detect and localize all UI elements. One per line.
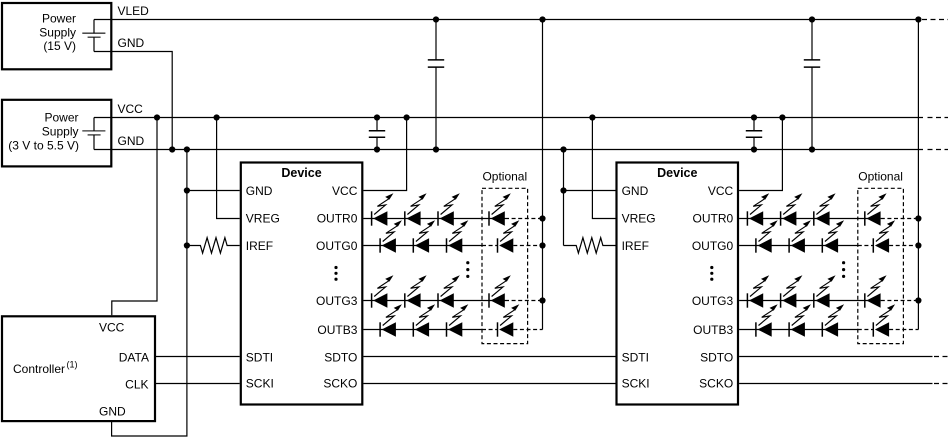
capacitor C2 (VLED bypass, device U1) (435, 20, 437, 150)
svg-text:GND: GND (246, 184, 273, 198)
svg-text:Power: Power (44, 111, 78, 125)
optional LED OUTR0 (489, 193, 511, 225)
device U2 box (617, 163, 739, 405)
LED string U2 OUTG3 (747, 275, 769, 307)
wire U2 OUTB3 string (739, 329, 858, 331)
junction VCC rail / U2 VREG feed (589, 114, 595, 120)
junction U2 OUTG3 / VLED drop (915, 297, 921, 303)
svg-text:VCC: VCC (332, 184, 358, 198)
wire U2 GND pin (564, 190, 616, 192)
svg-text:Optional: Optional (858, 170, 903, 184)
power supply PS1 (15 V) box (2, 3, 111, 69)
junction C1 / GND rail (374, 146, 380, 152)
junction C3 / VCC rail (751, 114, 757, 120)
LED area ellipsis (U1) (466, 261, 469, 264)
wire VCC dashed continuation (928, 117, 949, 119)
optional LED U2 OUTR0 (865, 193, 887, 225)
wire U1 OUTG0 string (363, 245, 482, 247)
svg-text:IREF: IREF (622, 239, 649, 253)
wire controller VCC feed (112, 118, 157, 316)
junction GND rail / U1 ground drop (184, 146, 190, 152)
power supply PS2 (3 V to 5.5 V) box (2, 100, 111, 167)
svg-text:DATA: DATA (119, 350, 149, 364)
svg-text:Power: Power (42, 12, 76, 26)
svg-text:SCKI: SCKI (246, 377, 274, 391)
junction PS1 GND / GND rail (169, 146, 175, 152)
LED string U2 OUTR0 (747, 193, 769, 225)
capacitor C4 (VLED bypass, device U2) (811, 20, 813, 150)
svg-text:(15 V): (15 V) (43, 39, 76, 53)
junction OUTG0 / VLED drop (539, 242, 545, 248)
svg-text:SDTO: SDTO (324, 350, 357, 364)
battery symbol inside PS2 (82, 130, 105, 132)
wire CLK to U1 SCKI (156, 383, 240, 385)
wire U2 VREG feed (592, 118, 615, 219)
wire U2 ground drop (563, 150, 565, 246)
optional LED OUTB3 (498, 304, 520, 336)
svg-text:SCKI: SCKI (622, 377, 650, 391)
junction VLED rail / U2 drop (915, 16, 921, 22)
svg-text:VCC: VCC (708, 184, 734, 198)
svg-text:Supply: Supply (42, 125, 79, 139)
svg-text:OUTR0: OUTR0 (693, 212, 734, 226)
wire U1 OUTB3 string (363, 329, 482, 331)
capacitor C3 (VCC bypass, device U2) (753, 118, 755, 150)
wire U1 OUTR0 string (363, 218, 505, 220)
junction U1 GND pin / ground drop (184, 187, 190, 193)
junction U2 OUTG0 / VLED drop (915, 242, 921, 248)
wire U1 ground drop (GND rail to controller GND) (112, 150, 187, 437)
wire U1 GND pin (187, 190, 240, 192)
svg-text:Device: Device (281, 166, 321, 180)
LED string OUTG3 (372, 275, 394, 307)
junction GND rail / U2 ground drop (560, 146, 566, 152)
optional LED OUTG0 (498, 220, 520, 252)
svg-text:GND: GND (622, 184, 649, 198)
wire U2 OUTR0 string (739, 218, 881, 220)
optional LED U2 OUTG3 (865, 275, 887, 307)
optional LED OUTG3 (489, 275, 511, 307)
svg-text:VCC: VCC (99, 321, 125, 335)
wire GND dashed continuation (928, 149, 949, 151)
wire VLED drop for U1 LED strings (542, 20, 544, 330)
controller box (2, 316, 155, 421)
svg-text:GND: GND (99, 405, 126, 419)
device U1 box (241, 163, 362, 405)
svg-text:(3 V to 5.5 V): (3 V to 5.5 V) (8, 138, 79, 152)
wire U2 SCKO output (739, 383, 932, 385)
LED string U2 OUTG0 (756, 220, 778, 252)
junction C4 / GND rail (809, 146, 815, 152)
optional dashed box (U1) (482, 188, 528, 343)
svg-text:OUTB3: OUTB3 (693, 323, 733, 337)
LED string OUTR0 (372, 193, 394, 225)
svg-text:VCC: VCC (118, 102, 144, 116)
junction VCC rail / controller feed (154, 114, 160, 120)
junction U1 IREF / ground drop (184, 242, 190, 248)
optional LED U2 OUTB3 (873, 304, 895, 336)
resistor R1 (U1 IREF) (187, 238, 240, 253)
junction VCC rail / U1 VREG feed (214, 114, 220, 120)
junction VCC rail / U1 VCC feed (404, 114, 410, 120)
wire U2 OUTG3 string (739, 300, 881, 302)
junction C3 / GND rail (751, 146, 757, 152)
wire device U1 VREG feed (217, 118, 240, 219)
svg-text:Supply: Supply (39, 26, 76, 40)
junction OUTG3 / VLED drop (539, 297, 545, 303)
LED string OUTB3 (380, 304, 402, 336)
wire VLED dashed continuation (922, 19, 948, 21)
svg-text:VREG: VREG (246, 212, 280, 226)
junction C2 / VLED rail (433, 16, 439, 22)
wire VCC rail (94, 117, 923, 119)
svg-text:OUTR0: OUTR0 (317, 212, 358, 226)
junction C2 / GND rail (433, 146, 439, 152)
wire U1 SCKO to U2 SCKI (363, 383, 615, 385)
wire U1 VCC feed (363, 118, 406, 191)
svg-text:Optional: Optional (482, 170, 527, 184)
svg-text:(1): (1) (67, 360, 78, 370)
svg-text:CLK: CLK (125, 377, 148, 391)
svg-text:OUTG3: OUTG3 (692, 294, 734, 308)
svg-text:SDTI: SDTI (622, 350, 649, 364)
optional LED U2 OUTG0 (873, 220, 895, 252)
junction U2 OUTR0 / VLED drop (915, 215, 921, 221)
svg-text:VLED: VLED (118, 4, 150, 18)
junction C4 / VLED rail (809, 16, 815, 22)
svg-text:OUTB3: OUTB3 (317, 323, 357, 337)
wire GND rail (94, 149, 923, 151)
resistor R2 (U2 IREF) (564, 238, 616, 253)
battery symbol inside PS1 (82, 32, 105, 34)
LED string U2 OUTB3 (756, 304, 778, 336)
junction VLED rail / U1 drop (539, 16, 545, 22)
wire VLED rail (94, 19, 918, 21)
wire U2 VCC feed (739, 118, 782, 191)
svg-text:VREG: VREG (622, 212, 656, 226)
wire U2 SDTO output (739, 356, 932, 358)
junction U2 GND pin / ground drop (560, 187, 566, 193)
svg-text:GND: GND (118, 134, 145, 148)
LED area ellipsis (U2) (842, 261, 845, 264)
wire DATA to U1 SDTI (156, 356, 240, 358)
svg-text:IREF: IREF (246, 239, 273, 253)
junction VCC rail / U2 VCC feed (779, 114, 785, 120)
svg-text:OUTG0: OUTG0 (692, 239, 734, 253)
svg-text:SCKO: SCKO (699, 377, 733, 391)
wire PS1 GND to ground rail (94, 52, 172, 150)
svg-text:OUTG3: OUTG3 (316, 294, 358, 308)
wire U2 OUTG0 string (739, 245, 858, 247)
svg-text:GND: GND (118, 36, 145, 50)
svg-text:SCKO: SCKO (323, 377, 357, 391)
svg-text:SDTI: SDTI (246, 350, 273, 364)
svg-text:OUTG0: OUTG0 (316, 239, 358, 253)
U2 interior ellipsis (710, 266, 713, 269)
junction OUTR0 / VLED drop (539, 215, 545, 221)
LED string OUTG0 (380, 220, 402, 252)
junction C1 / VCC rail (374, 114, 380, 120)
U1 interior ellipsis (334, 266, 337, 269)
wire U1 SDTO to U2 SDTI (363, 356, 615, 358)
svg-text:Controller: Controller (13, 362, 65, 376)
optional dashed box (U2) (858, 188, 904, 343)
capacitor C1 (VCC bypass, device U1) (376, 118, 378, 150)
wire VLED drop for U2 LED strings (917, 20, 919, 330)
wire U1 OUTG3 string (363, 300, 505, 302)
svg-text:SDTO: SDTO (700, 350, 733, 364)
svg-text:Device: Device (657, 166, 697, 180)
